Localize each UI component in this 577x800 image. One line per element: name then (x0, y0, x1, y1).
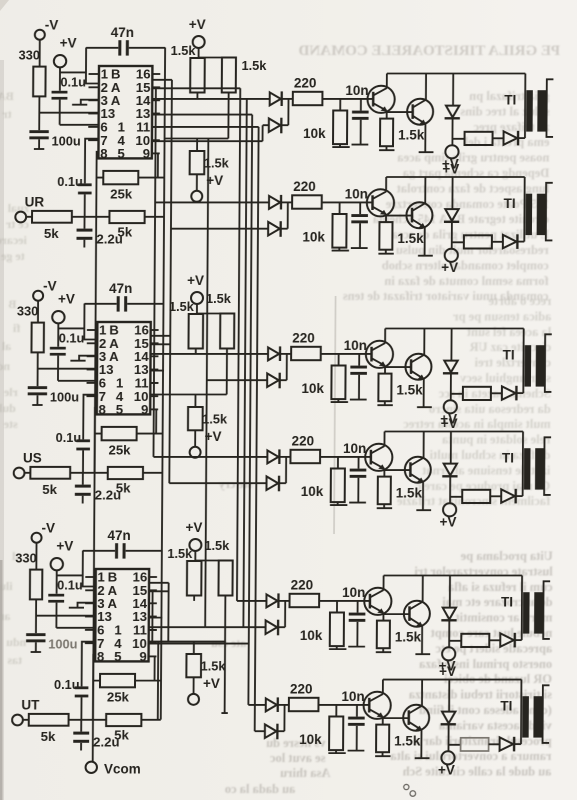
resistor 330 (channel UT) (30, 570, 42, 600)
svg-text:ilu: ilu (0, 579, 13, 593)
wire secondary bracket (block 1) (546, 79, 553, 137)
svg-text:10k: 10k (303, 126, 326, 141)
svg-text:TI: TI (502, 451, 514, 466)
wire top rail (block 2) (386, 176, 525, 178)
wire UT riser (152, 583, 169, 720)
svg-text:10k: 10k (299, 732, 322, 747)
resistor 1.5k (block 2) (385, 216, 387, 223)
diode D5a (266, 594, 277, 607)
resistor 1.5k (block 6) (382, 718, 384, 725)
svg-text:si tiristorii trebui distan: si tiristorii trebui distantza (408, 688, 552, 702)
terminal -V (channel US) (33, 291, 43, 301)
wire feed diode D3a (151, 353, 269, 355)
svg-text:US: US (23, 451, 42, 466)
svg-text:220: 220 (292, 331, 315, 346)
svg-text:5k: 5k (41, 729, 56, 744)
svg-text:1.5k: 1.5k (206, 291, 232, 306)
wire top rail (block 6) (383, 679, 522, 681)
svg-text:izat de tensiune alternat: izat de tensiune alternat (421, 463, 550, 477)
wire bus E x208.8 (205, 139, 208, 628)
resistor 1.5k (block 1) (386, 112, 388, 119)
resistor 25k (channel UR) (103, 171, 138, 184)
svg-text:10n: 10n (341, 689, 364, 704)
svg-text:+V: +V (439, 664, 456, 679)
resistor 1.5k a (channel UT) (187, 561, 202, 596)
resistor 10k (block 2) (339, 202, 341, 214)
svg-text:2.2u: 2.2u (93, 735, 119, 750)
wire top rail (block 3) (385, 328, 524, 330)
wire Ra bottom (195, 349, 197, 354)
capacitor C0.1u B (channel UR) (78, 183, 92, 186)
svg-text:1.5k: 1.5k (395, 630, 422, 645)
svg-text:TI: TI (504, 196, 516, 211)
svg-text:au dude la calle circuite: au dude la calle circuite Sch (403, 765, 552, 779)
wire +V node (58, 304, 97, 347)
svg-text:mult simpla in acesta retr: mult simpla in acesta retrec (403, 417, 551, 431)
terminal +V (block 5) (442, 647, 455, 660)
svg-text:TI: TI (500, 699, 512, 714)
wire diode join (284, 601, 286, 627)
capacitor 100u (channel UR) (29, 130, 48, 133)
wire base node (322, 201, 373, 203)
wire top rail (block 1) (387, 73, 526, 75)
wire bus B x247 (243, 99, 246, 627)
wire Vcom rail (93, 217, 97, 762)
svg-text:+V: +V (189, 17, 206, 32)
terminal +V top pair (channel UR) (193, 36, 205, 48)
svg-text:8: 8 (97, 649, 104, 664)
resistor 1.5k mid (channel US) (194, 395, 196, 408)
capacitor 2.2u (channel UT) (73, 732, 89, 735)
capacitor 10n (block 4) (358, 457, 360, 469)
wire mesh horizontals (150, 336, 170, 395)
svg-text:nebuie luat care compt: nebuie luat care compt (430, 626, 553, 640)
terminal +V (channel UR) (54, 55, 66, 67)
wire bus C x252.5 (248, 115, 252, 705)
svg-text:lung aspect de faza contro: lung aspect de faza controlat (396, 181, 549, 195)
resistor 10k (block 6) (335, 705, 337, 717)
resistor 220 (block 5) (290, 594, 320, 607)
svg-text:1.5k: 1.5k (201, 659, 227, 674)
transistor Q3b (405, 354, 431, 380)
svg-text:10k: 10k (301, 381, 324, 396)
svg-text:TI: TI (503, 348, 515, 363)
capacitor 2.2u (channel UR) (77, 229, 93, 232)
svg-text:9: 9 (141, 402, 148, 417)
diode D1c vertical (452, 74, 454, 106)
svg-text:1.5k: 1.5k (396, 486, 423, 501)
svg-text:B: B (8, 297, 16, 311)
resistor 5k input (channel US) (30, 467, 70, 479)
stub pin3 step (69, 603, 96, 608)
svg-text:te ge: te ge (0, 249, 24, 263)
transistor Q4b (405, 457, 431, 483)
svg-text:TI: TI (501, 595, 513, 610)
wire pin9 drop (157, 153, 159, 177)
diode D2c vertical (451, 177, 453, 209)
wire R330 to C100u (38, 96, 40, 130)
terminal +V mid (channel US) (194, 430, 196, 447)
wire top rail (block 4) (385, 431, 524, 433)
wire diode join (286, 354, 288, 380)
transistor Q5b (404, 601, 430, 627)
wire feed diode D4b (169, 482, 266, 484)
wire feed diode D1b (152, 125, 269, 141)
diode D1a (270, 92, 281, 105)
resistor 1.5k b (channel UR) (222, 58, 236, 93)
resistor 220 (block 3) (291, 347, 321, 360)
resistor gate (block 6) (461, 738, 489, 751)
transistor Q3a (366, 341, 393, 368)
wire feed diode D6b (255, 730, 265, 732)
svg-text:25k: 25k (107, 690, 130, 705)
terminal +V (channel US) (52, 311, 64, 323)
svg-text:10n: 10n (343, 441, 366, 456)
svg-text:-V: -V (45, 18, 59, 33)
terminal +V (block 2) (445, 249, 458, 262)
diode D5b (266, 620, 278, 634)
terminal +V mid (channel UR) (196, 174, 198, 191)
resistor 220 (block 1) (293, 92, 323, 105)
capacitor 10n (block 2) (359, 202, 361, 214)
resistor 25k (channel UT) (100, 674, 135, 687)
svg-text:nd: nd (0, 359, 10, 373)
wire input row (24, 472, 162, 474)
resistor 220 (block 2) (292, 195, 322, 208)
svg-text:2.2u: 2.2u (95, 488, 121, 503)
svg-text:BA: BA (0, 89, 14, 103)
diode D6b (265, 724, 277, 738)
svg-text:1.5k: 1.5k (398, 128, 425, 143)
stub pin3 step (72, 100, 99, 105)
resistor 10k (block 5) (336, 601, 338, 613)
resistor 1.5k (block 5) (382, 614, 384, 621)
diode D6c vertical (448, 680, 450, 712)
svg-text:+V: +V (60, 36, 77, 51)
wire +V bar (195, 551, 225, 561)
wire mesh verticals (152, 48, 172, 720)
svg-text:8: 8 (99, 402, 106, 417)
resistor gate (block 1) (465, 132, 493, 145)
wire base node (322, 98, 373, 100)
diode D4b (266, 476, 278, 490)
wire pin8 Vcom drop (95, 408, 97, 473)
wire bus A x240 (237, 88, 240, 601)
wire ch3 lower rows (149, 627, 249, 643)
svg-text:fi: fi (12, 321, 20, 335)
svg-text:0.1u: 0.1u (57, 174, 83, 189)
capacitor C0.1u A (channel US) (50, 347, 66, 350)
svg-text:rle: rle (3, 385, 18, 399)
wire base node (319, 600, 370, 602)
svg-text:330: 330 (17, 304, 38, 319)
diode D4c vertical (450, 432, 452, 464)
wire base node (320, 456, 371, 458)
diode D3d (502, 386, 516, 399)
wire emitter to base2 (387, 111, 413, 113)
svg-text:+V: +V (440, 515, 457, 530)
wire feed diode D3b (207, 379, 267, 381)
resistor 10k (block 1) (339, 99, 341, 111)
wire pin9 drop (154, 656, 156, 680)
transistor Q1a (367, 86, 394, 113)
wire feed diode D1a (152, 98, 270, 100)
svg-text:+V: +V (441, 416, 458, 431)
transistor Q6b (403, 705, 429, 731)
resistor 1.5k a (channel UR) (190, 58, 205, 93)
svg-text:UT: UT (21, 698, 40, 713)
wire feed diode D2a (155, 201, 269, 203)
wire +V bar (197, 304, 227, 314)
wire secondary bracket (block 5) (543, 581, 550, 639)
wire -V to R330 (39, 40, 41, 67)
svg-text:am: am (0, 609, 10, 623)
wire R330 to C100u (37, 352, 39, 386)
wire -V to R330 (35, 543, 37, 570)
terminal Vcom (86, 762, 97, 773)
diode D3b (267, 373, 279, 387)
svg-text:Vcom: Vcom (104, 762, 141, 777)
svg-text:cum il refuza si afla: cum il refuza si afla (447, 580, 552, 594)
svg-text:complet comandat altern sch: complet comandat altern schob (382, 258, 549, 272)
terminal +V (block 3) (444, 400, 457, 413)
svg-text:Asa thiru: Asa thiru (280, 766, 330, 780)
wire feed diode D5a (237, 600, 267, 602)
svg-text:+V: +V (203, 676, 220, 691)
svg-text:adica tensun pe pr: adica tensun pe pr (453, 309, 552, 323)
wire emitter to base2 (383, 717, 409, 719)
wire pin8 Vcom drop (96, 152, 98, 217)
svg-text:220: 220 (292, 434, 315, 449)
svg-text:+V: +V (187, 273, 204, 288)
wire feed diode D6a (248, 704, 265, 706)
svg-text:0.1u: 0.1u (57, 578, 83, 593)
svg-text:+V: +V (441, 260, 458, 275)
svg-text:5k: 5k (44, 226, 59, 241)
svg-text:100u: 100u (50, 390, 79, 405)
svg-text:10k: 10k (302, 230, 325, 245)
resistor gate (block 5) (461, 634, 489, 647)
capacitor C0.1u A (channel UT) (48, 594, 64, 597)
resistor gate (block 3) (463, 387, 491, 400)
capacitor C0.1u B (channel US) (76, 439, 90, 442)
wire pin13 row (38, 369, 97, 381)
transistor Q2b (406, 202, 432, 228)
resistor 1.5k (block 3) (384, 367, 386, 374)
transistor Q5a (364, 588, 391, 615)
wire pin7 down (82, 642, 96, 687)
resistor 1.5k mid (channel UR) (196, 139, 198, 152)
diode D3a (268, 347, 279, 360)
wire feed diode D5b (205, 626, 265, 628)
resistor 10k (block 4) (337, 457, 339, 469)
capacitor 10n (block 6) (356, 705, 358, 717)
svg-text:ste: ste (3, 417, 18, 431)
diode D6d (500, 737, 514, 750)
wire feed diode D4a (153, 456, 267, 458)
resistor 5k feedback (channel UR) (109, 211, 144, 223)
op-amp/IC U2 (channel US) (97, 322, 151, 414)
svg-text:+V: +V (185, 520, 202, 535)
svg-text:5: 5 (114, 649, 121, 664)
svg-text:1.5k: 1.5k (241, 58, 267, 73)
svg-text:+V: +V (56, 539, 73, 554)
wire pin8 Vcom drop (93, 655, 95, 720)
svg-text:5: 5 (116, 402, 123, 417)
svg-text:iecare: iecare (0, 233, 27, 247)
resistor 1.5k a (channel US) (188, 314, 203, 349)
wire pin7 down (85, 139, 99, 184)
resistor 220 (block 6) (289, 698, 319, 711)
wire R330 to C100u (35, 599, 37, 633)
wire emitter to base2 (386, 215, 412, 217)
svg-text:la aceea fel sunt: la aceea fel sunt (466, 325, 551, 339)
diode D3c vertical (450, 329, 452, 361)
svg-text:PE GRILA TIRISTOARELE COMAN: PE GRILA TIRISTOARELE COMAND (298, 43, 560, 59)
svg-text:+V: +V (438, 763, 455, 778)
svg-text:+V: +V (442, 162, 459, 177)
resistor 1.5k b (channel UT) (218, 561, 232, 596)
diode D1d (504, 131, 518, 144)
svg-text:tas: tas (7, 653, 22, 667)
resistor gate (block 4) (462, 490, 490, 503)
capacitor 100u (channel US) (28, 386, 47, 389)
svg-text:220: 220 (294, 76, 317, 91)
wire diode join (285, 457, 287, 483)
wire +V node (60, 48, 99, 91)
wire input row (22, 719, 160, 721)
terminal UT (channel input) (12, 715, 23, 726)
svg-text:1.5k: 1.5k (394, 734, 421, 749)
wire emitter to base2 (385, 366, 411, 368)
wire bus D x259 (255, 127, 259, 731)
wire mesh horizontals (152, 80, 259, 127)
transistor Q4a (365, 444, 392, 471)
resistor 1.5k mid (channel UT) (193, 642, 195, 655)
resistor 5k feedback (channel UT) (106, 714, 141, 726)
terminal US (channel input) (14, 468, 25, 479)
resistor 5k feedback (channel US) (108, 467, 143, 479)
resistor 25k (channel US) (102, 427, 137, 440)
wire Ra bottom (193, 596, 195, 601)
svg-text:9: 9 (143, 146, 150, 161)
svg-text:au dada la co: au dada la co (225, 782, 296, 796)
terminal -V (channel UR) (35, 30, 45, 40)
svg-text:forma semnl comuta de faza: forma semnl comuta de faza in (384, 274, 548, 288)
diode D2a (269, 196, 280, 209)
capacitor 2.2u (channel US) (75, 485, 91, 488)
svg-text:10n: 10n (342, 585, 365, 600)
capacitor 100u (channel UT) (26, 633, 45, 636)
terminal +V top pair (channel UT) (189, 539, 201, 551)
op-amp/IC U1 (channel UR) (98, 66, 152, 158)
wire pin9 drop (155, 409, 157, 433)
terminal +V (channel UT) (51, 558, 63, 570)
svg-text:10n: 10n (345, 83, 368, 98)
terminal +V mid (channel UT) (193, 677, 195, 694)
svg-text:0.1u: 0.1u (56, 430, 82, 445)
wire feed diode D2b (171, 228, 268, 230)
svg-text:220: 220 (291, 578, 314, 593)
wire base node (321, 353, 372, 355)
svg-text:10k: 10k (301, 484, 324, 499)
resistor 220 (block 4) (290, 450, 320, 463)
svg-text:(cand adesea cont il fiind: (cand adesea cont il fiind (419, 703, 552, 717)
wire top rail (block 5) (384, 575, 523, 577)
svg-text:220: 220 (290, 682, 313, 697)
svg-text:9: 9 (139, 649, 146, 664)
svg-text:de faza in schbul multi: de faza in schbul multi (429, 448, 550, 462)
resistor 1.5k (block 4) (383, 470, 385, 477)
capacitor 10n (block 3) (358, 354, 360, 366)
diode D5d (500, 633, 514, 646)
svg-text:circuite tegrate BAA 145 S: circuite tegrate BAA 145 Schema (372, 212, 549, 226)
terminal UR (channel input) (15, 212, 26, 223)
wire -V to R330 (37, 301, 39, 323)
terminal +V (block 4) (443, 503, 456, 516)
svg-text:Uita proclama pe: Uita proclama pe (460, 549, 553, 563)
svg-text:10n: 10n (344, 338, 367, 353)
svg-text:1.5k: 1.5k (204, 538, 230, 553)
diode D4a (267, 450, 278, 463)
svg-text:10n: 10n (345, 187, 368, 202)
wire secondary bracket (block 4) (544, 437, 551, 495)
svg-text:47n: 47n (111, 25, 134, 40)
svg-text:0.1u: 0.1u (59, 331, 85, 346)
resistor 330 (channel UR) (33, 67, 45, 97)
svg-text:5k: 5k (42, 482, 57, 497)
wire mesh horizontals (149, 583, 169, 642)
svg-text:100u: 100u (48, 637, 77, 652)
svg-text:1.5k: 1.5k (396, 383, 423, 398)
svg-text:UR: UR (25, 195, 45, 210)
wire pin7 down (83, 395, 97, 440)
svg-text:se avut loc: se avut loc (269, 751, 325, 765)
svg-text:25k: 25k (110, 187, 133, 202)
svg-text:1.5k: 1.5k (169, 299, 195, 314)
wire ch3 stub column (221, 642, 228, 714)
svg-text:+V: +V (58, 292, 75, 307)
svg-text:al: al (1, 339, 11, 353)
svg-text:-V: -V (43, 279, 57, 294)
capacitor 10n (block 5) (357, 601, 359, 613)
svg-text:dul: dul (0, 401, 16, 415)
svg-text:tr: tr (2, 107, 12, 121)
diode D4d (501, 489, 515, 502)
svg-text:1.5k: 1.5k (397, 231, 424, 246)
terminal +V (block 1) (445, 145, 458, 158)
capacitor 10n (block 1) (360, 99, 362, 111)
svg-text:330: 330 (15, 551, 36, 566)
svg-text:2.2u: 2.2u (96, 232, 122, 247)
diode D5c vertical (449, 576, 451, 608)
wire pin13 row (39, 113, 98, 125)
capacitor C0.1u B (channel UT) (75, 686, 89, 689)
svg-text:-V: -V (41, 521, 55, 536)
svg-text:25k: 25k (108, 443, 131, 458)
svg-text:0.1u: 0.1u (60, 75, 86, 90)
diode D6a (266, 698, 277, 711)
wire Ra bottom (196, 93, 198, 99)
wire secondary bracket (block 3) (545, 334, 552, 392)
resistor 1.5k b (channel US) (220, 314, 234, 349)
terminal -V (channel UT) (32, 533, 42, 543)
wire diode join (287, 99, 289, 125)
wire input row (26, 216, 164, 218)
svg-text:47n: 47n (109, 281, 132, 296)
svg-text:ndu: ndu (6, 635, 26, 649)
svg-text:8: 8 (100, 146, 107, 161)
